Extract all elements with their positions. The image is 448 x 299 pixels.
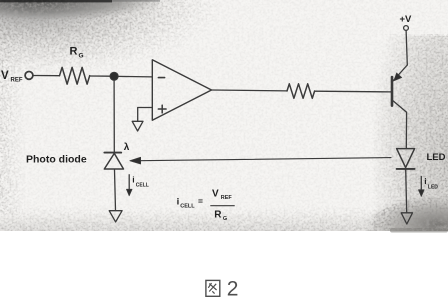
svg-text:λ: λ [124,142,130,153]
ground at photodiode [109,211,122,222]
LED D1 [397,149,415,168]
svg-text:CELL: CELL [180,204,195,210]
svg-text:+V: +V [400,14,413,25]
svg-text:i: i [424,176,426,186]
wire photodiode to ground [115,170,116,211]
caption figure 2 [206,280,220,296]
photodiode D2 [104,153,123,169]
node A summing junction [110,72,118,80]
LED cathode bar [397,168,415,170]
wire summing node down to photodiode [113,80,115,152]
wire RG to summing node [90,75,110,77]
svg-text:V: V [1,70,9,82]
resistor RG [60,67,90,84]
svg-text:i: i [177,196,180,207]
node +V terminal [404,26,409,31]
svg-text:LED: LED [427,152,446,163]
transistor Q1 (PNP) base bar [391,77,394,106]
wire VREF terminal to RG [33,75,59,77]
svg-text:Photo diode: Photo diode [26,154,87,166]
op-amp non-inverting pin mark [158,105,166,113]
wire optical feedback LED to photodiode [140,158,392,161]
current arrow I_CELL [127,175,133,196]
svg-text:LED: LED [428,184,438,190]
svg-text:REF: REF [221,195,233,201]
ground at op-amp [132,121,143,131]
node VREF input terminal [25,72,33,80]
svg-text:REF: REF [11,78,23,84]
scanned paper background [0,0,448,231]
svg-text:R: R [214,209,222,220]
wire LED to ground [406,170,407,213]
svg-text:2: 2 [227,277,239,299]
transistor Q1 collector lead [393,101,407,149]
op-amp inverting pin mark [158,77,164,79]
ground at LED [401,213,412,224]
wire base resistor to transistor base [315,90,391,93]
transistor Q1 emitter arrow [394,73,402,81]
svg-text:R: R [70,46,78,58]
optical feedback arrowhead [130,157,141,164]
photodiode D2 cathode bar [104,152,121,154]
fraction bar of formula [211,205,234,207]
svg-text:CELL: CELL [136,183,149,189]
wire node to op-amp inverting input [118,75,152,78]
svg-text:V: V [212,189,219,200]
transistor Q1 emitter lead [393,65,407,81]
svg-text:=: = [198,196,203,206]
wire emitter to +V [406,30,407,65]
wire non-inverting input to ground [138,108,153,122]
op-amp U1 [152,60,211,121]
current arrow I_LED [419,177,425,197]
svg-text:G: G [79,53,84,60]
wire op-amp output to base resistor [212,89,288,92]
svg-text:G: G [223,216,227,222]
svg-text:i: i [132,174,134,184]
resistor base drive [287,84,315,99]
